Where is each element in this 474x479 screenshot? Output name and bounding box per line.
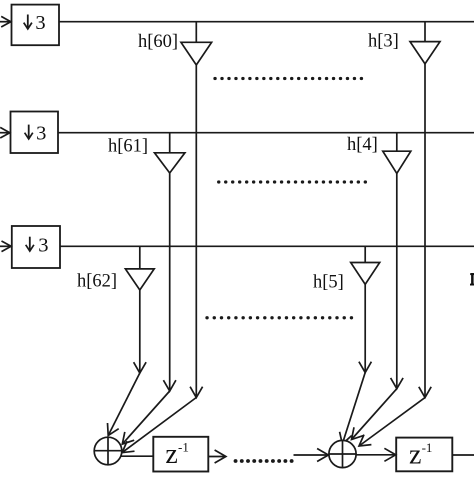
- arrowhead bend h[5]: [359, 362, 372, 373]
- downsampler D1: [12, 5, 60, 46]
- wire drop h[60]: [195, 65, 197, 398]
- wire drop h[61]: [169, 173, 171, 391]
- multiplier triangle h[3]: [410, 22, 440, 64]
- dotted chain bottom: [236, 459, 293, 463]
- multiplier triangle h[61]: [155, 133, 185, 173]
- dotted row 2: [219, 180, 367, 183]
- svg-text:h[3]: h[3]: [368, 32, 399, 52]
- arrowhead bend h[62]: [134, 362, 147, 373]
- adder A2: [329, 440, 356, 467]
- diagonal wire h[5] to adder: [340, 373, 366, 445]
- input arrow row 1: [0, 16, 11, 27]
- diagonal wire h[60] to adder: [122, 398, 196, 453]
- partial bold label at right edge: [470, 273, 474, 285]
- svg-text:3: 3: [36, 122, 46, 144]
- input arrow row 3: [0, 241, 11, 252]
- multiplier triangle h[5]: [351, 246, 380, 284]
- delay Z2: [396, 438, 452, 472]
- svg-text:3: 3: [35, 12, 45, 34]
- wire drop h[3]: [424, 64, 426, 398]
- svg-text:h[5]: h[5]: [313, 273, 344, 293]
- svg-text:h[4]: h[4]: [347, 135, 378, 155]
- arrowhead bend h[4]: [391, 378, 404, 389]
- downsampler D3: [12, 226, 60, 268]
- dotted row 1: [215, 77, 362, 80]
- svg-text:h[60]: h[60]: [138, 32, 178, 52]
- delay Z1: [153, 437, 208, 472]
- wire row 2: [58, 132, 474, 134]
- wire drop h[62]: [139, 290, 141, 373]
- wire row 1: [59, 21, 474, 23]
- downsampler D2: [11, 112, 59, 154]
- input arrow row 2: [0, 127, 10, 138]
- svg-text:h[62]: h[62]: [77, 272, 117, 292]
- multiplier triangle h[62]: [125, 246, 154, 290]
- wire adder A1 to delay Z1: [121, 455, 154, 457]
- dotted row 3: [207, 316, 352, 319]
- svg-text:z: z: [165, 439, 177, 470]
- diagonal wire h[61] to adder: [122, 391, 169, 444]
- diagonal wire h[3] to adder: [359, 398, 425, 446]
- svg-text:-1: -1: [178, 440, 189, 455]
- svg-text:3: 3: [38, 234, 48, 256]
- svg-text:z: z: [409, 440, 421, 471]
- wire drop h[5]: [364, 284, 366, 372]
- wire drop h[4]: [396, 173, 398, 388]
- wire row 3: [60, 245, 474, 247]
- diagonal wire h[62] to adder: [108, 373, 140, 436]
- arrow adder A2 to delay Z2: [356, 448, 396, 461]
- diagonal wire h[4] to adder: [352, 389, 397, 440]
- svg-text:-1: -1: [422, 440, 433, 455]
- arrow out of delay Z1: [208, 450, 226, 463]
- arrowhead bend h[60]: [190, 387, 203, 398]
- wire out of delay Z2: [452, 454, 474, 456]
- adder A1: [94, 437, 122, 465]
- arrow into adder A2: [294, 449, 329, 462]
- svg-text:h[61]: h[61]: [108, 137, 148, 157]
- multiplier triangle h[60]: [181, 22, 212, 65]
- multiplier triangle h[4]: [383, 133, 411, 174]
- arrowhead bend h[3]: [419, 387, 431, 398]
- arrowhead bend h[61]: [163, 380, 176, 391]
